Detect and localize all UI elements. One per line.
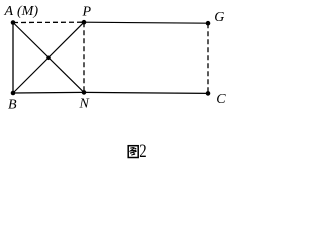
segment BN (bottom of square)	[13, 91, 84, 94]
svg-text:N: N	[79, 96, 90, 111]
svg-text:2: 2	[139, 140, 146, 161]
svg-text:(M): (M)	[17, 4, 38, 19]
point P	[82, 20, 87, 25]
caption glyph 图 (drawn)	[128, 146, 138, 158]
segment PN (dashed right side of square)	[83, 22, 85, 92]
svg-text:A: A	[4, 4, 14, 19]
svg-text:G: G	[214, 10, 224, 25]
point A	[11, 20, 16, 25]
point N	[82, 90, 87, 95]
point C	[206, 91, 211, 96]
segment NC (bottom edge of rectangle)	[84, 92, 208, 93]
point O (center of square)	[46, 56, 51, 61]
point B	[11, 91, 16, 96]
diagonal AN	[13, 23, 84, 93]
segment GC (dashed right edge of rectangle)	[207, 23, 209, 93]
segment AP (dashed top of square)	[13, 21, 84, 23]
svg-text:C: C	[216, 92, 226, 107]
segment PG (top edge of rectangle)	[84, 22, 208, 23]
segment AB (left edge)	[12, 23, 14, 94]
svg-text:P: P	[82, 5, 92, 20]
svg-text:B: B	[8, 97, 17, 112]
diagonal BP	[13, 22, 84, 93]
point G	[206, 21, 211, 26]
